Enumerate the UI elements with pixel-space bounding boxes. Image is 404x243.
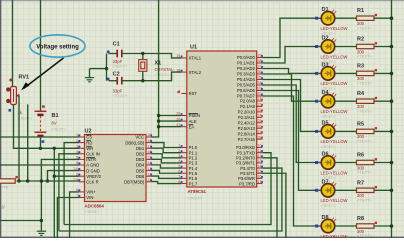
svg-text:P0.1/AD1: P0.1/AD1: [237, 61, 256, 66]
svg-text:R1: R1: [357, 8, 364, 14]
svg-text:<TEXT>: <TEXT>: [321, 114, 337, 119]
value LED-YELLOW: [321, 198, 348, 203]
svg-text:R6: R6: [357, 153, 364, 159]
wire: [374, 189, 392, 191]
svg-text:D4: D4: [322, 90, 330, 96]
wire: [374, 100, 392, 102]
svg-text:22: 22: [258, 103, 262, 107]
wire: [262, 69, 316, 74]
wire: [335, 162, 357, 164]
wire: [152, 143, 182, 148]
resistor R5: [357, 127, 378, 134]
svg-text:<TEXT>: <TEXT>: [85, 209, 101, 214]
crystal X1: [139, 54, 147, 81]
junction: [390, 99, 394, 103]
wire: [41, 159, 79, 231]
svg-text:P2.0/A8: P2.0/A8: [240, 99, 256, 104]
ground: [37, 231, 46, 235]
svg-text:<TEXT>: <TEXT>: [357, 170, 373, 175]
resistor R8: [357, 222, 378, 229]
value 300: [357, 193, 365, 198]
wire: [152, 182, 182, 184]
svg-text:2: 2: [178, 149, 180, 153]
svg-text:U1: U1: [190, 45, 197, 51]
junction: [40, 219, 43, 222]
svg-text:ALE: ALE: [189, 119, 197, 124]
value 300: [357, 49, 365, 54]
svg-text:<TEXT>: <TEXT>: [113, 93, 129, 98]
svg-text:3: 3: [76, 145, 78, 149]
resistor R1: [357, 14, 378, 21]
svg-text:4: 4: [76, 150, 78, 154]
wire: [122, 72, 182, 81]
svg-text:37: 37: [258, 65, 262, 69]
svg-text:9: 9: [76, 172, 78, 176]
text placeholder: [357, 170, 373, 175]
text placeholder: [321, 175, 337, 180]
junction: [390, 161, 394, 165]
wire: [159, 120, 182, 122]
value ADC0804: [85, 203, 105, 208]
label D2: [322, 36, 329, 42]
svg-text:P0.0/AD0: P0.0/AD0: [237, 55, 256, 60]
svg-text:A GND: A GND: [86, 163, 99, 168]
svg-text:2: 2: [76, 139, 78, 143]
text placeholder: [357, 198, 373, 203]
svg-text:29: 29: [176, 112, 180, 116]
text placeholder: [52, 127, 68, 132]
svg-text:VIN-: VIN-: [86, 195, 95, 200]
battery B1: [35, 105, 47, 148]
wire: [54, 175, 79, 177]
svg-text:DB2: DB2: [136, 152, 145, 157]
svg-text:<TEXT>: <TEXT>: [155, 72, 171, 77]
wire: [335, 225, 357, 227]
junction: [46, 179, 49, 182]
wire: [335, 46, 357, 48]
svg-text:19: 19: [176, 54, 180, 58]
svg-text:RD: RD: [86, 140, 92, 145]
svg-text:DB3: DB3: [136, 157, 145, 162]
svg-text:<TEXT>: <TEXT>: [357, 25, 373, 30]
label D5: [322, 120, 329, 126]
text placeholder: [357, 81, 373, 86]
label C1: [113, 41, 120, 47]
svg-text:DB5: DB5: [136, 168, 145, 173]
wire: [262, 47, 316, 64]
resistor R3: [357, 69, 378, 76]
svg-text:R8: R8: [357, 216, 364, 222]
ground: [85, 69, 94, 82]
text placeholder: [113, 93, 129, 98]
svg-text:<TEXT>: <TEXT>: [357, 108, 373, 113]
text placeholder: [18, 116, 34, 121]
text placeholder: [321, 239, 337, 243]
junction: [390, 224, 394, 228]
capacitor C2: [107, 77, 122, 85]
wire: [335, 100, 357, 102]
value LED-YELLOW: [321, 81, 348, 86]
junction: [53, 147, 56, 150]
junction: [390, 72, 394, 76]
text placeholder: [321, 31, 337, 36]
svg-text:D8: D8: [322, 215, 329, 221]
wire: [57, 198, 79, 239]
junction: [141, 79, 144, 82]
svg-text:6: 6: [178, 169, 180, 173]
value LED-YELLOW: [321, 54, 348, 59]
svg-text:P0.3/AD3: P0.3/AD3: [237, 72, 256, 77]
text placeholder: [357, 139, 373, 144]
label U1: [190, 45, 197, 51]
wire: [335, 17, 357, 19]
svg-text:R3: R3: [357, 63, 364, 69]
junction: [40, 179, 43, 182]
value 300: [357, 76, 365, 81]
wire: [262, 158, 277, 238]
value AT89C51: [188, 189, 207, 194]
svg-text:RV1: RV1: [19, 75, 30, 81]
wire: [159, 126, 182, 128]
wire: [152, 154, 182, 158]
text placeholder: [85, 209, 101, 214]
svg-text:DB0(LSB): DB0(LSB): [125, 140, 144, 145]
text placeholder: [321, 59, 337, 64]
value LED-YELLOW: [321, 234, 348, 239]
svg-text:25: 25: [258, 119, 262, 123]
svg-text:CLK IN: CLK IN: [86, 152, 100, 157]
svg-text:Voltage setting: Voltage setting: [36, 45, 79, 51]
wire: [27, 104, 29, 181]
svg-text:<TEXT>: <TEXT>: [188, 196, 204, 201]
svg-text:<TEXT>: <TEXT>: [113, 64, 129, 69]
label B1: [52, 113, 59, 119]
value 300: [357, 229, 365, 234]
label D1: [322, 7, 329, 13]
svg-text:6V: 6V: [52, 121, 57, 126]
svg-text:CS: CS: [86, 135, 92, 140]
wire: [0, 220, 41, 222]
svg-text:AT89C51: AT89C51: [188, 189, 207, 194]
svg-text:<TEXT>: <TEXT>: [52, 127, 68, 132]
value 300: [357, 134, 365, 139]
wire: [53, 148, 55, 238]
resistor R7: [357, 186, 378, 193]
svg-text:10: 10: [258, 144, 262, 148]
junction: [26, 179, 29, 182]
svg-text:D6: D6: [322, 152, 329, 158]
svg-text:39: 39: [258, 54, 262, 58]
svg-text:P1.7: P1.7: [189, 181, 198, 186]
wire: [374, 225, 392, 227]
label D7: [322, 179, 329, 185]
svg-text:14: 14: [258, 164, 262, 168]
junction: [157, 119, 160, 122]
wire: [335, 189, 357, 191]
value LED-YELLOW: [321, 26, 348, 31]
svg-text:WR: WR: [86, 146, 93, 151]
label RV1: [19, 75, 30, 81]
svg-text:<TEXT>: <TEXT>: [357, 233, 373, 238]
svg-text:DB7(MSB): DB7(MSB): [124, 180, 145, 185]
label D8: [322, 215, 329, 221]
wire: [152, 176, 182, 178]
wire: [152, 0, 159, 137]
svg-text:INTR: INTR: [86, 157, 96, 162]
wire: [159, 115, 182, 117]
svg-text:<TE: <TE: [1, 185, 9, 190]
svg-text:VREF/2: VREF/2: [86, 174, 101, 179]
svg-text:<TEXT>: <TEXT>: [321, 203, 337, 208]
junction: [17, 179, 20, 182]
svg-text:U2: U2: [85, 128, 92, 134]
junction: [390, 130, 394, 134]
ADC U2 ADC0804 body: [74, 133, 152, 201]
wire: [152, 170, 182, 173]
value 300: [357, 21, 365, 26]
svg-text:PSEN: PSEN: [189, 113, 200, 118]
value 1k: [18, 110, 23, 115]
label R1: [357, 8, 364, 14]
svg-text:R7: R7: [357, 180, 364, 186]
wire: [70, 192, 79, 238]
svg-text:7: 7: [76, 194, 78, 198]
svg-text:35: 35: [258, 76, 262, 80]
svg-text:10: 10: [74, 167, 78, 171]
wire: [109, 53, 118, 55]
value 33pF: [113, 88, 123, 93]
svg-text:D GND: D GND: [86, 168, 100, 173]
value 300: [357, 165, 365, 170]
wire: [374, 162, 392, 164]
junction: [105, 67, 108, 70]
text placeholder: [357, 54, 373, 59]
svg-text:21: 21: [258, 97, 262, 101]
svg-text:18: 18: [176, 68, 180, 72]
junction: [53, 175, 56, 178]
resistor R9: [0, 176, 18, 183]
svg-text:38: 38: [258, 59, 262, 63]
svg-text:P0.6/AD6: P0.6/AD6: [237, 88, 256, 93]
junction: [39, 147, 42, 150]
label R3: [357, 63, 364, 69]
svg-text:R2: R2: [357, 37, 364, 43]
svg-text:R4: R4: [357, 91, 365, 97]
value LED-YELLOW: [321, 109, 348, 114]
svg-text:XTAL1: XTAL1: [189, 56, 202, 61]
wire: [262, 80, 316, 132]
annotation ellipse "Voltage setting": [30, 35, 85, 57]
junction: [157, 125, 160, 128]
svg-text:DB4: DB4: [136, 163, 145, 168]
wire: [374, 130, 392, 132]
label X1: [155, 61, 162, 67]
svg-text:P0.5/AD5: P0.5/AD5: [237, 83, 256, 88]
wire: [262, 96, 316, 226]
text placeholder: [155, 72, 171, 77]
svg-text:15: 15: [258, 169, 262, 173]
svg-text:P2.3/A11: P2.3/A11: [238, 115, 256, 120]
svg-text:DB6: DB6: [136, 174, 145, 179]
svg-text:<TEXT>: <TEXT>: [321, 144, 337, 149]
value CRYSTAL: [155, 67, 175, 72]
resistor R2: [357, 42, 378, 49]
svg-text:<TEXT>: <TEXT>: [357, 81, 373, 86]
svg-text:D2: D2: [322, 36, 329, 42]
annotation arrow: [21, 58, 64, 91]
wire: [262, 74, 316, 101]
wire: [0, 164, 79, 166]
svg-text:XTAL2: XTAL2: [189, 70, 202, 75]
svg-text:31: 31: [176, 123, 180, 127]
wire: [122, 54, 182, 58]
label D3: [322, 62, 329, 68]
svg-text:LED-YELLOW: LED-YELLOW: [321, 234, 348, 238]
text placeholder: [1, 185, 9, 190]
svg-text:16: 16: [258, 175, 262, 179]
svg-text:CRYSTAL: CRYSTAL: [155, 67, 175, 72]
svg-text:<TEXT>: <TEXT>: [357, 139, 373, 144]
svg-text:23: 23: [258, 108, 262, 112]
svg-text:19: 19: [74, 178, 78, 182]
svg-text:D5: D5: [322, 120, 329, 126]
svg-text:ADC0804: ADC0804: [85, 203, 105, 208]
svg-text:P2.7/A15: P2.7/A15: [238, 137, 256, 142]
svg-text:27: 27: [258, 130, 262, 134]
svg-text:P2.4/A12: P2.4/A12: [238, 121, 256, 126]
text placeholder: [357, 25, 373, 30]
text placeholder: [113, 64, 129, 69]
svg-text:28: 28: [258, 135, 262, 139]
svg-text:26: 26: [258, 124, 262, 128]
svg-text:6: 6: [76, 188, 78, 192]
junction: [390, 189, 394, 193]
LED D8: [315, 218, 336, 233]
wire: [374, 72, 392, 74]
LED D5: [315, 123, 336, 138]
resistor R4: [357, 97, 378, 104]
svg-text:8: 8: [178, 180, 180, 184]
svg-text:<TEXT>: <TEXT>: [18, 116, 34, 121]
value 6V: [52, 121, 57, 126]
svg-text:1: 1: [178, 144, 180, 148]
wire: [152, 165, 182, 168]
svg-text:DB1: DB1: [136, 146, 145, 151]
wire: [18, 96, 20, 181]
text placeholder: [321, 144, 337, 149]
wire: [64, 153, 271, 225]
junction: [390, 45, 394, 49]
label D4: [322, 90, 330, 96]
svg-text:34: 34: [258, 81, 262, 85]
value 33pF: [113, 59, 123, 64]
svg-text:P0.4/AD4: P0.4/AD4: [237, 77, 256, 82]
LED D3: [315, 65, 336, 80]
svg-text:5: 5: [76, 156, 78, 160]
svg-text:C1: C1: [113, 41, 120, 47]
svg-text:3: 3: [178, 154, 180, 158]
wire: [12, 0, 14, 87]
label R8: [357, 216, 364, 222]
wire: [262, 173, 286, 238]
potentiometer RV1: [6, 79, 19, 112]
junction: [157, 114, 160, 117]
svg-text:11: 11: [258, 149, 262, 153]
wire: [106, 54, 108, 81]
wire: [262, 85, 316, 163]
svg-text:30: 30: [176, 117, 180, 121]
wire: [40, 0, 42, 111]
label R2: [357, 37, 364, 43]
svg-text:24: 24: [258, 114, 262, 118]
sheet marker: [2, 205, 6, 211]
label R6: [357, 153, 364, 159]
label U2: [85, 128, 92, 134]
wire: [0, 136, 79, 138]
wire: [152, 159, 182, 163]
svg-text:R5: R5: [357, 121, 364, 127]
label R5: [357, 121, 364, 127]
wire: [109, 80, 118, 82]
svg-text:D7: D7: [322, 179, 329, 185]
wire: [14, 105, 80, 149]
capacitor C1: [107, 50, 122, 58]
label R7: [357, 180, 364, 186]
wire: [374, 46, 392, 48]
value LED-YELLOW: [321, 139, 348, 144]
svg-text:33: 33: [258, 87, 262, 91]
svg-text:P2.1/A9: P2.1/A9: [240, 104, 256, 109]
svg-text:P3.7/RD: P3.7/RD: [239, 181, 255, 186]
wire: [59, 168, 282, 231]
svg-text:1: 1: [76, 133, 78, 137]
LED D7: [315, 182, 336, 197]
wire: [17, 180, 80, 182]
svg-text:4: 4: [178, 159, 180, 163]
wire: [152, 148, 182, 152]
svg-text:<TEXT>: <TEXT>: [357, 198, 373, 203]
value 300: [357, 104, 365, 109]
wire: [262, 18, 316, 57]
svg-text:CLK R: CLK R: [86, 180, 98, 185]
label R4: [357, 91, 365, 97]
label D6: [322, 152, 329, 158]
label C2: [113, 71, 120, 77]
wire: [335, 130, 357, 132]
svg-text:36: 36: [258, 70, 262, 74]
svg-text:13: 13: [258, 159, 262, 163]
svg-text:RST: RST: [189, 91, 198, 96]
microcontroller U1 AT89C51 body: [176, 51, 263, 187]
svg-text:17: 17: [258, 180, 262, 184]
svg-text:D3: D3: [322, 62, 329, 68]
svg-text:D1: D1: [322, 7, 329, 13]
text placeholder: [321, 203, 337, 208]
svg-text:<TEXT>: <TEXT>: [357, 54, 373, 59]
svg-text:B1: B1: [52, 113, 59, 119]
svg-text:7: 7: [178, 175, 180, 179]
svg-text:VCC: VCC: [135, 135, 144, 140]
LED D6: [315, 154, 336, 169]
svg-text:X1: X1: [155, 61, 162, 67]
text placeholder: [357, 108, 373, 113]
wire: [64, 143, 79, 225]
wire: [90, 68, 107, 70]
value LED-YELLOW: [321, 170, 348, 175]
junction: [390, 16, 394, 20]
svg-text:C2: C2: [113, 71, 120, 77]
wire: [59, 154, 79, 231]
